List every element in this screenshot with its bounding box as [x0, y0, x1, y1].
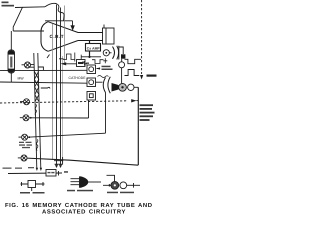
bus line vertical B (x60.5) — [60, 8, 62, 168]
small box on feed wire — [77, 60, 86, 67]
filled wedge — [112, 83, 119, 92]
AND gate block — [71, 177, 102, 188]
gate generator block — [21, 181, 45, 192]
deflection column left line — [34, 53, 37, 169]
label gate generator — [20, 192, 45, 194]
wire chain to right riser — [134, 86, 138, 88]
gun arcs lower — [103, 78, 105, 93]
resistor squiggle lower — [36, 140, 38, 151]
wire neck to CsAMP — [89, 41, 91, 44]
crossed circle D — [18, 155, 27, 161]
bus line vertical gray (x62.5) — [62, 56, 64, 163]
label +P — [147, 75, 157, 77]
bus line vertical gray (x52.5) — [52, 24, 54, 160]
wire circleB right to riser — [29, 117, 88, 119]
long return wire bottom — [27, 158, 138, 165]
bottom row text left — [3, 167, 35, 169]
wire pill top — [10, 31, 12, 50]
arrowhead column left — [36, 168, 38, 171]
junction tick on return wire — [62, 157, 64, 165]
wire U2 to gun — [96, 81, 103, 83]
arrowhead into CRT — [70, 25, 74, 31]
pill bottom cap — [8, 70, 15, 72]
delay block right — [103, 175, 140, 189]
C.R.T base — [103, 28, 115, 44]
wire arrow feed into box column — [66, 63, 87, 65]
major horizontal y70.6 — [0, 69, 87, 71]
small circle node — [119, 62, 125, 68]
svg-text:CATHODE: CATHODE — [69, 76, 87, 80]
svg-text:Cs AMP: Cs AMP — [87, 46, 101, 50]
pulse glyph row-1 left — [63, 54, 75, 60]
wire bottom row — [8, 172, 62, 175]
wire horizontal into CRT upper — [13, 30, 44, 32]
wire junction right — [81, 56, 101, 58]
wire jump-over hook — [45, 3, 64, 20]
wire arrow drop into CRT — [72, 21, 74, 27]
wire pill bottom — [10, 73, 12, 82]
box U3 — [87, 92, 96, 101]
Cs AMP box — [86, 44, 101, 52]
right riser down — [137, 87, 139, 165]
black square junction — [121, 54, 125, 58]
gun arcs upper — [113, 47, 115, 59]
deflection braid — [34, 72, 39, 102]
crossed circle A (on dashed line) — [20, 99, 30, 105]
bus line vertical A (x56.5) — [56, 5, 58, 168]
crossed circle 1 — [25, 62, 31, 68]
grid cartridge (pill) body — [8, 50, 15, 73]
node label top-left (supply text) — [2, 2, 15, 7]
wire top lead from label — [15, 6, 45, 9]
marks under dot circle — [103, 58, 107, 63]
C.R.T funnel bottom — [48, 41, 78, 52]
dashed horizontal net — [0, 101, 128, 103]
wire circle1 right — [31, 64, 35, 66]
riser U3 down — [88, 100, 90, 118]
wire CsAMP down — [89, 51, 91, 57]
stub on CRT base top — [103, 25, 105, 29]
label delay block — [107, 192, 134, 194]
arrowhead dashed bottom — [140, 75, 143, 80]
box U1 with circle — [87, 65, 96, 74]
svg-text:MW: MW — [18, 77, 25, 81]
wire small circle down — [121, 68, 123, 84]
wire top horizontal to arrow — [45, 20, 73, 22]
pill inner text marks — [10, 57, 12, 68]
pulse glyph right upper — [125, 59, 142, 63]
wire square to small circle — [121, 59, 123, 62]
wire hook right of lens2 — [41, 87, 50, 88]
small box on bottom row wire — [46, 170, 56, 177]
label small left — [19, 142, 32, 149]
crossed circle B — [20, 115, 32, 121]
wire gun top right — [119, 47, 123, 54]
column end ticks — [54, 161, 63, 165]
deflection column right line — [38, 53, 41, 169]
arrow right of U1 + label — [97, 68, 101, 70]
pulse glyph row-1 mid — [92, 60, 104, 64]
svg-text:ASSOCIATED CIRCUITRY: ASSOCIATED CIRCUITRY — [42, 209, 126, 216]
arrowhead dashed right — [131, 99, 136, 102]
label AND gate — [67, 190, 93, 192]
C.R.T envelope bell — [41, 22, 48, 52]
pulse glyph right lower — [125, 70, 140, 76]
dashed vertical net — [141, 0, 143, 74]
ticks 1.5 marks — [47, 55, 64, 59]
wire circleC right joins sloping feed — [28, 133, 106, 137]
junction dot — [88, 56, 90, 58]
pill top cap — [8, 51, 15, 53]
jump marks on pair — [30, 67, 44, 70]
squiggle label under U1 — [98, 76, 109, 78]
wire circle1 left dash — [22, 64, 25, 66]
arrowhead column right — [40, 168, 42, 171]
riser from gun lower down — [105, 93, 107, 134]
dotted anode circle — [103, 50, 109, 56]
open circle — [128, 84, 134, 90]
arrowhead left feed — [61, 62, 67, 65]
crossed circle C — [19, 134, 31, 140]
box U2 with circle — [87, 78, 96, 87]
resistor squiggle upper — [35, 105, 37, 116]
wire anode to gun — [109, 52, 111, 54]
bus line vertical gray (x64.5) — [64, 6, 66, 64]
horizontal y82 — [0, 82, 87, 83]
wire diagonal to grid lead — [13, 7, 22, 31]
text block right — [140, 104, 155, 121]
C.R.T funnel top — [48, 22, 78, 33]
shaded circle — [119, 83, 127, 91]
svg-text:FIG. 16 MEMORY CATHODE RAY TUB: FIG. 16 MEMORY CATHODE RAY TUBE AND — [5, 202, 153, 209]
C.R.T neck — [78, 33, 103, 41]
